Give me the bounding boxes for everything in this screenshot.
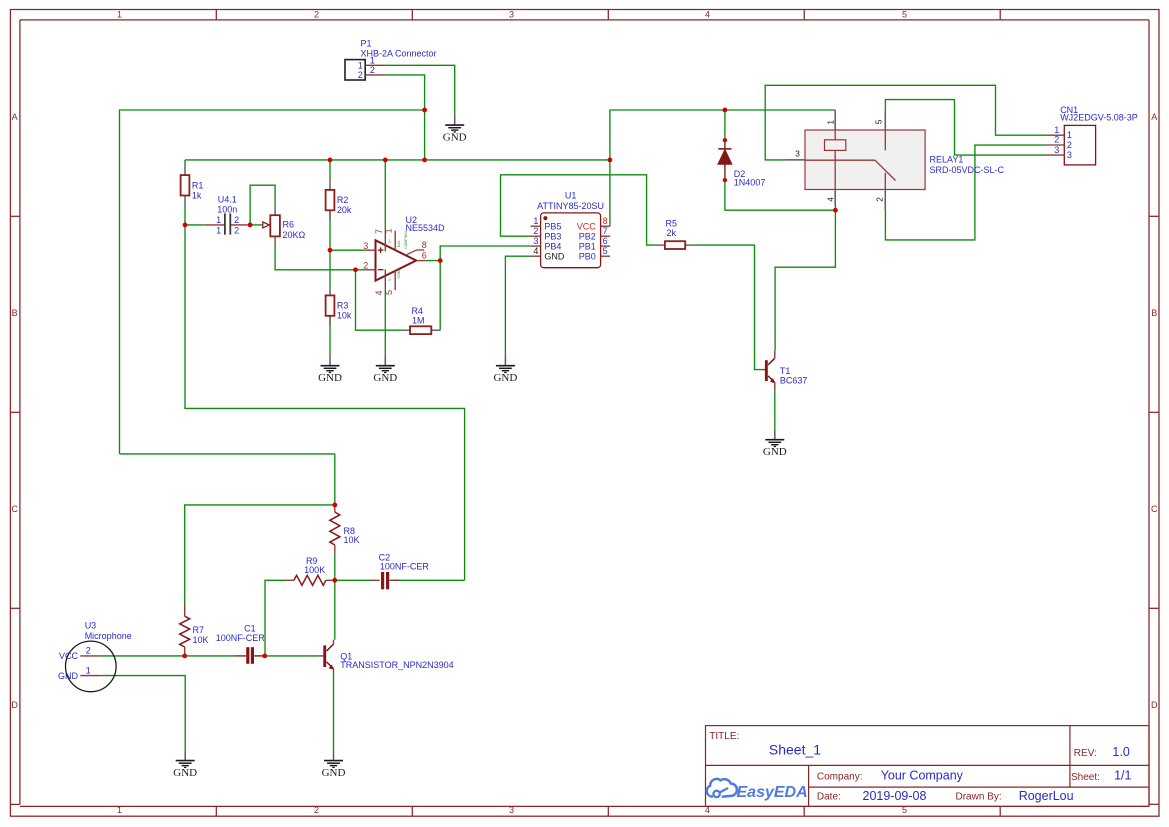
resistor R8 bbox=[330, 505, 360, 554]
svg-text:4: 4 bbox=[705, 10, 710, 20]
svg-text:NE5534D: NE5534D bbox=[406, 223, 446, 233]
svg-text:R1: R1 bbox=[192, 181, 204, 191]
svg-text:2: 2 bbox=[234, 226, 239, 236]
svg-text:2: 2 bbox=[234, 215, 239, 225]
svg-text:GND: GND bbox=[373, 372, 397, 384]
wire node to op-amp pin3 bbox=[330, 249, 366, 251]
relay RELAY1 bbox=[785, 110, 1004, 210]
svg-text:20k: 20k bbox=[337, 205, 352, 215]
svg-text:1.0: 1.0 bbox=[1112, 745, 1129, 759]
svg-text:1k: 1k bbox=[192, 190, 202, 200]
wire node to C2 right bbox=[185, 225, 465, 580]
junction (385,160) bbox=[383, 158, 388, 163]
wire op-amp feedback via R4 bbox=[356, 270, 401, 330]
wire cap out node bbox=[250, 224, 263, 226]
wire R2 bottom to node bbox=[329, 211, 331, 251]
svg-text:Sheet_1: Sheet_1 bbox=[769, 742, 821, 758]
wire C1 to base node bbox=[255, 655, 265, 657]
svg-text:GND: GND bbox=[443, 132, 467, 144]
svg-text:R2: R2 bbox=[337, 195, 349, 205]
wire riser to R8 node bbox=[334, 454, 336, 505]
svg-text:4: 4 bbox=[533, 246, 538, 256]
wire U1 PB3 loop to R5 bbox=[501, 175, 656, 245]
svg-text:WJ2EDGV-5.08-3P: WJ2EDGV-5.08-3P bbox=[1060, 113, 1138, 123]
svg-text:R6: R6 bbox=[283, 220, 295, 230]
svg-text:B: B bbox=[12, 308, 18, 318]
wire R5 to T1 base bbox=[694, 245, 760, 370]
svg-text:3: 3 bbox=[1067, 150, 1072, 160]
resistor R1 bbox=[181, 165, 204, 206]
svg-text:Sheet:: Sheet: bbox=[1071, 772, 1100, 783]
junction (355,270) bbox=[353, 267, 358, 272]
wire op-amp out bbox=[425, 260, 440, 262]
ground GND (T1) bbox=[763, 429, 787, 458]
wire node to C2 left bbox=[335, 579, 371, 581]
diode D2 bbox=[718, 138, 765, 188]
microphone U3 bbox=[58, 621, 132, 692]
potentiometer R6 bbox=[263, 206, 306, 245]
svg-text:BC637: BC637 bbox=[780, 375, 808, 385]
svg-text:100NF-CER: 100NF-CER bbox=[216, 633, 266, 643]
svg-text:Your Company: Your Company bbox=[881, 768, 964, 782]
wire mic VCC to R7 node bbox=[100, 655, 184, 657]
svg-text:4: 4 bbox=[374, 290, 384, 295]
junction (185,225) bbox=[183, 223, 188, 228]
svg-text:ATTINY85-20SU: ATTINY85-20SU bbox=[537, 201, 604, 211]
svg-text:2: 2 bbox=[363, 260, 368, 270]
svg-text:20KΩ: 20KΩ bbox=[283, 230, 306, 240]
resistor R7 bbox=[180, 604, 209, 656]
wire R8 bottom to node bbox=[334, 554, 336, 580]
svg-text:D: D bbox=[1151, 700, 1158, 710]
wire R8 node to R7 top bbox=[185, 505, 335, 604]
wire P1 pin2 drop bbox=[385, 75, 424, 160]
wire cap to node A bbox=[185, 224, 205, 226]
svg-text:5: 5 bbox=[873, 119, 883, 124]
svg-text:COMP/BAL: COMP/BAL bbox=[404, 230, 408, 249]
resistor R2 bbox=[326, 180, 352, 220]
svg-text:1/1: 1/1 bbox=[1114, 769, 1131, 783]
svg-text:7: 7 bbox=[374, 229, 384, 234]
wire R9 left to base node bbox=[265, 580, 286, 656]
svg-text:PB1: PB1 bbox=[579, 241, 596, 251]
svg-text:PB2: PB2 bbox=[579, 231, 596, 241]
ground GND (Q1) bbox=[322, 750, 346, 779]
svg-text:T1: T1 bbox=[780, 366, 791, 376]
wire relay pin2 to CN1 pin2 bbox=[885, 145, 1045, 240]
connector P1 bbox=[345, 39, 437, 81]
junction (725,110) bbox=[723, 108, 728, 113]
svg-text:1: 1 bbox=[117, 805, 122, 815]
junction (425,110) bbox=[422, 108, 427, 113]
junction (440,261) bbox=[438, 258, 443, 263]
svg-text:3: 3 bbox=[1054, 145, 1059, 155]
wire relay pin5 to CN1 pin3 bbox=[885, 100, 1045, 156]
svg-text:2: 2 bbox=[86, 646, 91, 656]
svg-text:C: C bbox=[11, 504, 18, 514]
svg-text:4: 4 bbox=[825, 197, 835, 202]
wire D2 bottom to relay pin4 node bbox=[725, 180, 836, 210]
wire R1 top bbox=[184, 160, 186, 165]
svg-text:R3: R3 bbox=[337, 301, 349, 311]
svg-text:2: 2 bbox=[358, 70, 363, 80]
svg-text:A: A bbox=[1151, 112, 1157, 122]
svg-text:1: 1 bbox=[86, 665, 91, 675]
svg-text:3: 3 bbox=[509, 805, 514, 815]
wire R6 bottom to op-amp pin2 bbox=[275, 245, 366, 269]
svg-text:1: 1 bbox=[384, 228, 394, 233]
svg-text:1: 1 bbox=[117, 10, 122, 20]
svg-text:1: 1 bbox=[1054, 125, 1059, 135]
svg-text:R4: R4 bbox=[411, 306, 423, 316]
IC U1 ATTINY85 bbox=[531, 190, 611, 267]
resistor R3 bbox=[326, 285, 352, 325]
wire VCC left riser bbox=[120, 110, 425, 454]
wire op-amp pin4 to GND bbox=[384, 290, 386, 356]
wire C2 right bbox=[389, 579, 464, 581]
svg-text:2: 2 bbox=[1067, 140, 1072, 150]
junction (335,505) bbox=[332, 503, 337, 508]
capacitor U4.1 bbox=[205, 195, 250, 236]
svg-text:Microphone: Microphone bbox=[85, 631, 132, 641]
svg-text:TRANSISTOR_NPN2N3904: TRANSISTOR_NPN2N3904 bbox=[340, 660, 453, 670]
junction (265,656) bbox=[262, 654, 267, 659]
resistor R5 bbox=[656, 219, 694, 250]
svg-text:U1: U1 bbox=[565, 190, 577, 200]
svg-text:XHB-2A Connector: XHB-2A Connector bbox=[361, 48, 437, 58]
junction (335,580) bbox=[332, 578, 337, 583]
svg-text:1: 1 bbox=[216, 226, 221, 236]
svg-text:VCC: VCC bbox=[59, 651, 79, 661]
svg-text:PB4: PB4 bbox=[544, 241, 561, 251]
svg-text:COMP: COMP bbox=[397, 267, 401, 278]
svg-text:10k: 10k bbox=[337, 310, 352, 320]
wire Q1 emitter to GND bbox=[333, 674, 335, 750]
svg-text:2: 2 bbox=[370, 65, 375, 75]
junction (610,160) bbox=[608, 158, 613, 163]
svg-text:Date:: Date: bbox=[817, 792, 841, 803]
wire relay pin4 node stub bbox=[834, 205, 836, 211]
wire VCC to U1 pin8 bbox=[610, 110, 836, 226]
wire node to Q1 collector bbox=[334, 580, 336, 639]
svg-text:P1: P1 bbox=[361, 39, 372, 49]
wire T1 emitter to GND bbox=[774, 390, 776, 429]
junction (185,656) bbox=[182, 654, 187, 659]
junction (425,160) bbox=[422, 158, 427, 163]
wire relay pin3 to CN1 pin1 bbox=[765, 85, 1045, 160]
svg-text:8: 8 bbox=[603, 216, 608, 226]
svg-text:PB5: PB5 bbox=[544, 221, 561, 231]
op-amp U2 bbox=[363, 215, 445, 295]
wire mic GND to GND bbox=[100, 676, 185, 751]
svg-text:R7: R7 bbox=[193, 625, 205, 635]
ground GND (U1) bbox=[493, 355, 517, 384]
ground GND (op-amp) bbox=[373, 355, 397, 384]
svg-text:10K: 10K bbox=[344, 535, 360, 545]
wire relay node to T1 collector bbox=[775, 210, 835, 350]
ground GND (P1) bbox=[443, 115, 467, 144]
transistor T1 bbox=[760, 351, 807, 391]
wire U1 GND pin to GND bbox=[505, 256, 530, 355]
wire output to U1 PB4 bbox=[440, 246, 530, 261]
wire VCC top rail bbox=[185, 159, 610, 161]
wire node loop to R6 top bbox=[250, 185, 275, 225]
wire base node to Q1 base bbox=[265, 655, 317, 657]
wire R2 top bbox=[329, 160, 331, 181]
svg-text:1N4007: 1N4007 bbox=[734, 178, 766, 188]
svg-text:PB0: PB0 bbox=[579, 251, 596, 261]
svg-text:5: 5 bbox=[902, 10, 907, 20]
svg-text:2: 2 bbox=[314, 805, 319, 815]
wire R1 bottom to node bbox=[184, 205, 186, 225]
svg-text:1: 1 bbox=[358, 61, 363, 71]
wire R4 right to output node bbox=[439, 261, 441, 331]
wire op-amp pin7 to VCC bbox=[384, 160, 386, 232]
svg-text:GND: GND bbox=[763, 446, 787, 458]
svg-text:1: 1 bbox=[1067, 130, 1072, 140]
svg-text:U3: U3 bbox=[85, 621, 97, 631]
EasyEDA logo bbox=[707, 779, 808, 801]
svg-text:GND: GND bbox=[322, 767, 346, 779]
svg-text:2k: 2k bbox=[667, 228, 677, 238]
svg-text:U4.1: U4.1 bbox=[218, 195, 237, 205]
svg-text:6: 6 bbox=[603, 236, 608, 246]
svg-text:VCC: VCC bbox=[577, 221, 597, 231]
svg-text:2019-09-08: 2019-09-08 bbox=[863, 789, 927, 803]
svg-text:8: 8 bbox=[422, 240, 427, 250]
svg-text:100K: 100K bbox=[304, 565, 325, 575]
junction (330,160) bbox=[328, 158, 333, 163]
svg-text:A: A bbox=[12, 112, 18, 122]
svg-text:GND: GND bbox=[493, 372, 517, 384]
svg-text:RogerLou: RogerLou bbox=[1019, 789, 1074, 803]
ground GND (R3) bbox=[318, 355, 342, 384]
svg-text:7: 7 bbox=[603, 226, 608, 236]
wire node to R3 top bbox=[329, 250, 331, 285]
resistor R4 bbox=[401, 306, 440, 334]
title block bbox=[706, 726, 1150, 807]
wire node to C1 bbox=[185, 655, 235, 657]
ground GND (mic) bbox=[173, 750, 197, 779]
svg-text:PB3: PB3 bbox=[544, 231, 561, 241]
svg-text:3: 3 bbox=[363, 241, 368, 251]
svg-text:100NF-CER: 100NF-CER bbox=[380, 562, 430, 572]
svg-text:1: 1 bbox=[216, 215, 221, 225]
transistor Q1 bbox=[317, 640, 453, 674]
svg-text:2: 2 bbox=[314, 10, 319, 20]
svg-text:2: 2 bbox=[875, 197, 885, 202]
svg-text:1: 1 bbox=[825, 120, 835, 125]
svg-text:100n: 100n bbox=[217, 205, 237, 215]
svg-text:SRD-05VDC-SL-C: SRD-05VDC-SL-C bbox=[930, 165, 1005, 175]
capacitor C1 bbox=[216, 624, 266, 664]
svg-text:C: C bbox=[1151, 504, 1158, 514]
junction (330,250) bbox=[328, 248, 333, 253]
svg-text:1: 1 bbox=[533, 216, 538, 226]
svg-text:3: 3 bbox=[509, 10, 514, 20]
svg-text:Company:: Company: bbox=[817, 771, 863, 782]
wire P1 pin1 to GND bbox=[385, 65, 454, 114]
svg-text:5: 5 bbox=[384, 290, 394, 295]
junction (835,210) bbox=[833, 208, 838, 213]
svg-text:GND: GND bbox=[318, 372, 342, 384]
svg-text:D: D bbox=[11, 700, 18, 710]
svg-text:1M: 1M bbox=[412, 315, 425, 325]
resistor R9 bbox=[286, 556, 335, 585]
svg-text:BAL: BAL bbox=[397, 240, 401, 247]
svg-text:Drawn By:: Drawn By: bbox=[956, 792, 1002, 803]
svg-text:3: 3 bbox=[795, 149, 800, 159]
wire D2 top bbox=[724, 110, 726, 140]
wire R3 bottom to GND bbox=[329, 316, 331, 355]
svg-text:TITLE:: TITLE: bbox=[709, 731, 739, 742]
svg-text:RELAY1: RELAY1 bbox=[930, 155, 964, 165]
svg-text:2: 2 bbox=[533, 226, 538, 236]
svg-text:GND: GND bbox=[544, 251, 565, 261]
capacitor C2 bbox=[371, 553, 429, 590]
svg-text:2: 2 bbox=[1054, 135, 1059, 145]
svg-text:EasyEDA: EasyEDA bbox=[737, 784, 808, 801]
connector CN1 bbox=[1046, 105, 1138, 165]
svg-text:6: 6 bbox=[422, 250, 427, 260]
svg-text:GND: GND bbox=[173, 767, 197, 779]
junction (250,225) bbox=[248, 223, 253, 228]
svg-text:V+: V+ bbox=[388, 239, 392, 244]
wire VCC to R7/R8 bbox=[120, 453, 335, 455]
svg-text:10K: 10K bbox=[193, 635, 209, 645]
svg-text:REV:: REV: bbox=[1074, 748, 1097, 759]
svg-text:GND: GND bbox=[58, 671, 79, 681]
svg-text:5: 5 bbox=[603, 246, 608, 256]
svg-text:B: B bbox=[1151, 308, 1157, 318]
svg-text:3: 3 bbox=[533, 236, 538, 246]
